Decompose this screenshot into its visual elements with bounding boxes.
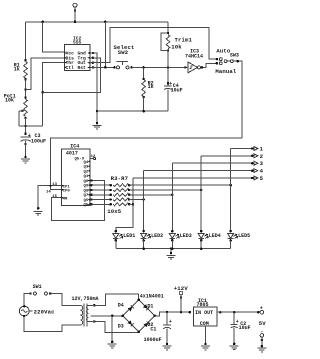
wire output row 2 [129, 189, 201, 191]
wire trimmer feed from rail [167, 22, 169, 33]
wire terminal line 4 [144, 170, 253, 172]
svg-text:5: 5 [260, 175, 264, 182]
svg-text:+12V: +12V [174, 285, 189, 292]
svg-text:1000uF: 1000uF [144, 337, 162, 343]
svg-text:Manual: Manual [215, 68, 237, 75]
svg-text:SW2: SW2 [118, 49, 129, 56]
wire +V rail [26, 21, 169, 23]
wire terminal line 3 [172, 162, 252, 164]
resistor R5 [90, 193, 130, 196]
node Thr/Trg junction [41, 91, 44, 94]
wire SW3 pole to clock line [51, 61, 243, 189]
svg-text:+: + [169, 81, 172, 87]
wire LED3 cathode [171, 240, 173, 248]
wire ground link R2/C4 [97, 110, 168, 112]
ground under C3 [21, 159, 30, 163]
svg-text:100uF: 100uF [31, 139, 46, 145]
svg-text:LED4: LED4 [209, 233, 221, 239]
svg-text:COM: COM [200, 321, 209, 327]
capacitor C1 1000uF [166, 311, 169, 314]
wire Out pin up and over to SW3 Auto [92, 61, 95, 64]
ground under LED bus [167, 255, 176, 259]
resistor R2 1k [142, 67, 146, 111]
svg-text:MR: MR [63, 197, 68, 201]
svg-text:10x5: 10x5 [107, 208, 122, 215]
node rail junction Vcc [41, 21, 44, 24]
ground output [257, 348, 266, 352]
svg-text:10uF: 10uF [171, 87, 183, 93]
switch SW2 Select [117, 62, 129, 69]
LED5 [228, 230, 238, 242]
svg-text:4x1N4001: 4x1N4001 [140, 294, 164, 300]
wire Thr net vertical [43, 63, 65, 127]
wire LED1 cathode [115, 240, 117, 248]
wire SW1 to transformer primary top [50, 294, 76, 306]
node negative output terminal [260, 334, 264, 342]
ground under C2 [230, 346, 239, 350]
svg-text:12: 12 [91, 155, 96, 159]
node SW2 left wire end [113, 66, 116, 69]
svg-text:IN OUT: IN OUT [195, 310, 213, 316]
svg-text:Ctl: Ctl [66, 65, 75, 71]
wire terminal line 1 [231, 148, 253, 150]
svg-text:D3: D3 [118, 323, 124, 329]
svg-text:74HC14: 74HC14 [185, 53, 203, 59]
wire MR to Q5 reset loop [52, 181, 105, 221]
svg-text:SW1: SW1 [33, 284, 42, 290]
node rail junction Rst drop [104, 21, 107, 24]
resistor R3 [90, 184, 130, 187]
svg-text:D4: D4 [118, 302, 124, 308]
inverter gate IC3 74HC14 [184, 62, 200, 73]
resistor R6 [90, 198, 130, 201]
wire negative terminal to ground [261, 337, 263, 346]
wire trimmer bottom to input node [167, 51, 169, 68]
svg-text:C1: C1 [150, 327, 156, 333]
node junction ground link [96, 110, 99, 113]
svg-text:7805: 7805 [197, 302, 209, 308]
wire riser signal 5 (T5 to LED1 via jog) [116, 178, 133, 231]
capacitor C2 10uF [233, 311, 236, 314]
ground under COM [201, 346, 210, 350]
LED3 [169, 230, 179, 242]
wire Vcc drop from rail [43, 22, 65, 52]
bridge rectifier D1-D4 4x1N4001 [123, 300, 155, 332]
svg-text:LED1: LED1 [123, 233, 135, 239]
svg-text:15: 15 [52, 195, 57, 199]
LED1 [113, 230, 123, 242]
wire Trg pin to Thr net [92, 57, 95, 60]
svg-text:LED3: LED3 [180, 233, 192, 239]
diode D2 [143, 321, 149, 327]
counter IC4 4017 box [62, 149, 90, 205]
svg-text:555: 555 [73, 40, 82, 46]
svg-text:1: 1 [260, 146, 264, 153]
node terminal 2 [251, 155, 254, 158]
regulator IC1 7805 [194, 307, 217, 326]
diode D4 [128, 305, 134, 311]
wire Dis to R1 bottom [26, 58, 65, 90]
wire CP1 to ground [38, 186, 62, 209]
wire secondary top to bridge [93, 304, 96, 307]
ground under C1 [163, 346, 172, 350]
node terminal 4 [251, 169, 254, 172]
svg-text:10k: 10k [171, 43, 182, 50]
wire LED2 cathode [143, 240, 145, 248]
svg-text:LED2: LED2 [151, 233, 163, 239]
ground under IC2 [93, 125, 102, 129]
wire riser signal 4 (T4 to LED2) [143, 171, 145, 232]
svg-text:1k: 1k [14, 67, 20, 73]
node terminal 3 [251, 162, 254, 165]
capacitor C4 10uF [164, 67, 171, 111]
wire rail drop to Rst [104, 22, 106, 68]
svg-text:IC4: IC4 [70, 143, 79, 149]
wiper of Pot1 [19, 109, 25, 126]
svg-text:+: + [169, 319, 172, 325]
source 220Vac [19, 305, 32, 317]
wire wiper return [19, 125, 43, 127]
svg-text:220Vac: 220Vac [34, 308, 56, 315]
transformer T1 12V 750mA [76, 304, 88, 327]
svg-text:LED5: LED5 [238, 233, 250, 239]
svg-text:5V: 5V [259, 320, 267, 327]
wire secondary centre tap [91, 315, 123, 317]
wire LED4 cathode [200, 240, 202, 248]
wire IC3 output to SW3 Manual [201, 63, 217, 67]
node terminal 1 [251, 147, 254, 150]
switch SW3 Auto/Manual [216, 58, 234, 65]
capacitor C3 100uF [21, 133, 32, 146]
wire output row 5 [129, 203, 133, 205]
svg-text:1k: 1k [148, 84, 154, 90]
wire Rst pin row to SW2 [92, 66, 95, 69]
wire output row 3 [129, 194, 172, 196]
wire +V terminal to rail [74, 7, 76, 22]
diode D1 [143, 304, 149, 310]
svg-text:-: - [260, 329, 263, 335]
wire pot bottom node [25, 118, 27, 134]
node junction above ground [96, 122, 99, 125]
svg-text:+: + [260, 305, 263, 311]
wire terminal line 5 [133, 177, 252, 179]
wire bus to ground [170, 247, 173, 250]
svg-text:SW3: SW3 [230, 52, 239, 58]
svg-text:4017: 4017 [66, 151, 78, 157]
wire terminal line 2 [201, 155, 252, 157]
wire R1 bottom to pot [25, 79, 27, 97]
svg-text:R3-R7: R3-R7 [111, 175, 129, 182]
svg-text:4: 4 [260, 168, 264, 175]
wire rail down to R1 [25, 22, 27, 61]
wire Gnd pin of IC2 to ground [92, 52, 95, 55]
wire output row 4 [129, 199, 143, 201]
wire C3 to ground [25, 141, 27, 157]
node +12V tap [180, 311, 183, 314]
svg-text:CP0: CP0 [63, 190, 71, 194]
wire source bottom to primary bottom [24, 316, 76, 331]
op-amp, er, timer IC2 555 box [64, 44, 90, 70]
diode D3 [127, 320, 133, 326]
trimmer Trim1 10k [161, 32, 170, 52]
svg-text:12V,750mA: 12V,750mA [72, 296, 99, 302]
wire COM to ground [205, 326, 207, 344]
node terminal 5 [251, 177, 254, 180]
node rail junction terminal [74, 21, 77, 24]
wire regulator output [217, 311, 258, 313]
wire LED cathode bus [116, 248, 231, 250]
node trimmer/C4 tap [167, 66, 170, 69]
node 5V output terminal [257, 310, 264, 314]
wire centre tap ground [111, 315, 114, 318]
wire riser signal 1 (T1 to LED5) [230, 149, 232, 232]
ground centre tap [108, 344, 117, 348]
node R2 tap [142, 66, 145, 69]
wire bridge + output to regulator [155, 312, 190, 316]
wire riser signal 3 (T3 to LED3) [171, 163, 173, 231]
node pot-bottom junction [24, 125, 27, 128]
node clock crossing [50, 185, 52, 187]
svg-text:3: 3 [260, 160, 264, 167]
potentiometer Pot1 10k [24, 96, 28, 119]
svg-text:2: 2 [260, 153, 264, 160]
ground under CP1 [34, 212, 43, 216]
resistor R1 1k [24, 59, 28, 81]
node Dis junction on R1 column [24, 88, 27, 91]
svg-text:10uF: 10uF [239, 325, 251, 331]
svg-text:Auto: Auto [216, 48, 231, 55]
node +V top supply terminal [73, 3, 77, 12]
wire output row 1 [129, 184, 230, 186]
wire source to SW1 [24, 294, 30, 307]
wire SW2 right to IC3 input [130, 66, 133, 69]
wire riser signal 2 (T2 to LED4) [200, 156, 202, 231]
svg-text:Rst: Rst [78, 65, 87, 71]
LED2 [141, 230, 151, 242]
resistor R7 [90, 203, 130, 206]
svg-text:14: 14 [46, 191, 51, 195]
wire secondary bottom to bridge [93, 320, 96, 323]
pin 12 carry stub [90, 158, 93, 160]
LED4 [198, 230, 208, 242]
resistor R4 [90, 189, 130, 192]
svg-text:D1: D1 [147, 303, 153, 309]
wire LED5 cathode [230, 240, 232, 248]
svg-text:10k: 10k [5, 98, 14, 104]
